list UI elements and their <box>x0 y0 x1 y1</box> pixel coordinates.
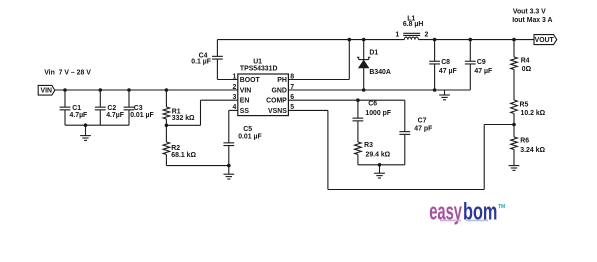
node: PH riser on top rail <box>348 38 352 42</box>
svg-text:0Ω: 0Ω <box>522 66 532 73</box>
svg-text:VIN: VIN <box>240 87 252 94</box>
svg-text:SS: SS <box>240 108 250 115</box>
wire: top rail C4 to L1 <box>217 39 404 41</box>
node: C8 bottom junction <box>433 88 437 92</box>
wire: PH pin 8 to switch node <box>288 40 349 80</box>
node: C9 top junction <box>469 38 473 42</box>
svg-text:10.2 kΩ: 10.2 kΩ <box>521 110 546 117</box>
inductor L1 6.8uH <box>395 15 428 39</box>
wire: compensation bottom rail <box>358 164 405 166</box>
svg-text:C6: C6 <box>368 101 377 108</box>
wire: VSNS pin 5 feedback loop <box>288 110 514 189</box>
svg-text:C5: C5 <box>243 126 252 133</box>
resistor R2 68.1k <box>163 125 196 165</box>
svg-text:4.7µF: 4.7µF <box>70 112 88 119</box>
svg-text:1: 1 <box>232 73 236 80</box>
capacitor C5 0.01uF (soft start) <box>223 110 261 165</box>
node: R1 junction <box>165 88 169 92</box>
capacitor C1 4.7uF <box>60 90 88 125</box>
svg-text:bom: bom <box>463 198 497 225</box>
svg-text:4: 4 <box>232 104 236 111</box>
svg-text:68.1 kΩ: 68.1 kΩ <box>171 152 196 159</box>
svg-text:6.8 µH: 6.8 µH <box>403 21 423 28</box>
svg-text:B340A: B340A <box>369 69 390 76</box>
svg-text:GND: GND <box>271 87 286 94</box>
ground (output caps) <box>439 90 450 100</box>
pin 4 label <box>232 104 236 111</box>
svg-text:VIN: VIN <box>41 88 53 95</box>
capacitor C9 47uF <box>465 40 492 90</box>
resistor R3 29.4k <box>355 142 391 165</box>
node: D1 cathode on rail <box>362 38 366 42</box>
svg-text:47 µF: 47 µF <box>439 68 457 75</box>
svg-text:Vout 3.3 V: Vout 3.3 V <box>513 9 546 16</box>
svg-text:VOUT: VOUT <box>535 37 555 44</box>
capacitor C2 4.7uF <box>95 90 124 125</box>
svg-text:2: 2 <box>425 32 429 39</box>
node: C2 junction <box>99 88 103 92</box>
svg-text:R3: R3 <box>364 142 373 149</box>
svg-text:C2: C2 <box>107 105 116 112</box>
svg-text:U1: U1 <box>253 59 262 66</box>
resistor R1 332k <box>163 90 195 125</box>
svg-text:1000 pF: 1000 pF <box>365 110 391 117</box>
pin 5 label <box>290 104 294 111</box>
Vout rating label <box>512 9 552 24</box>
svg-text:PH: PH <box>277 77 287 84</box>
wire: junction to EN pin 3 <box>166 100 237 125</box>
ground (R2/C5) <box>223 166 234 179</box>
svg-text:C1: C1 <box>72 105 81 112</box>
pin 8 label <box>290 73 294 80</box>
svg-text:47 µF: 47 µF <box>474 68 492 75</box>
svg-text:R5: R5 <box>520 102 529 109</box>
svg-text:Vin 7 V – 28 V: Vin 7 V – 28 V <box>44 69 91 76</box>
resistor R6 3.24k <box>511 125 546 166</box>
svg-text:47 pF: 47 pF <box>414 126 432 133</box>
resistor R5 10.2k <box>511 100 546 125</box>
svg-text:EN: EN <box>240 98 250 105</box>
svg-text:BOOT: BOOT <box>240 77 261 84</box>
capacitor C4 0.1uF (bootstrap) <box>191 40 238 80</box>
wire: COMP pin 6 to C6/C7 <box>288 99 404 101</box>
svg-text:C7: C7 <box>418 117 427 124</box>
svg-text:0.01 µF: 0.01 µF <box>130 112 154 119</box>
ground (R6) <box>509 166 520 171</box>
node: ground rail junction <box>84 123 88 127</box>
svg-text:Iout Max 3 A: Iout Max 3 A <box>512 17 552 24</box>
node: C3 junction <box>127 88 131 92</box>
op-amp U1 TPS54331D converter IC <box>238 59 289 116</box>
wire: VIN rail to U1 pin 2 <box>55 89 238 91</box>
svg-text:29.4 kΩ: 29.4 kΩ <box>366 151 391 158</box>
svg-text:4.7µF: 4.7µF <box>106 112 124 119</box>
wire: GND pin 7 rail <box>288 89 470 91</box>
svg-text:R4: R4 <box>521 58 530 65</box>
node: C1 junction <box>63 88 67 92</box>
diode D1 B340A schottky <box>357 40 391 90</box>
VOUT output tag <box>534 35 557 45</box>
svg-text:0.1 µF: 0.1 µF <box>191 59 211 66</box>
node: R5/R6 feedback junction <box>512 123 516 127</box>
node: C8 top junction <box>433 38 437 42</box>
capacitor C6 1000pF <box>353 100 392 142</box>
easybom logo <box>429 198 505 225</box>
svg-text:1: 1 <box>395 32 399 39</box>
node: R4 top junction <box>512 38 516 42</box>
svg-text:3: 3 <box>232 94 236 101</box>
wire: R2/C5 bottom rail <box>166 165 228 167</box>
svg-text:2: 2 <box>232 84 236 91</box>
svg-text:VSNS: VSNS <box>268 108 287 115</box>
ground (input caps) <box>80 125 91 140</box>
wire: input cap ground rail <box>65 124 129 126</box>
node: C5 bottom junction <box>227 164 231 168</box>
svg-text:3.24 kΩ: 3.24 kΩ <box>520 147 545 154</box>
svg-text:R2: R2 <box>171 145 180 152</box>
node: compensation gnd junction <box>378 163 382 167</box>
svg-text:TPS54331D: TPS54331D <box>240 66 278 73</box>
capacitor C8 47uF <box>429 40 456 90</box>
svg-text:0.01 µF: 0.01 µF <box>238 133 262 140</box>
svg-text:C8: C8 <box>441 59 450 66</box>
VIN input tag <box>38 85 55 95</box>
svg-text:TM: TM <box>498 204 505 210</box>
pin 1 label <box>232 73 236 80</box>
pin 6 label <box>290 94 294 101</box>
ground (compensation) <box>374 165 385 178</box>
svg-text:COMP: COMP <box>266 98 287 105</box>
svg-text:C9: C9 <box>477 59 486 66</box>
pin 3 label <box>232 94 236 101</box>
resistor R4 0 ohm <box>511 40 532 100</box>
node: D1 anode on gnd rail <box>362 88 366 92</box>
svg-text:easy: easy <box>429 198 462 225</box>
capacitor C7 47pF <box>399 100 432 165</box>
svg-text:332 kΩ: 332 kΩ <box>172 115 195 122</box>
wire: L1 to VOUT tag <box>419 39 535 41</box>
pin 7 label <box>290 84 294 91</box>
svg-text:D1: D1 <box>369 49 378 56</box>
node: C6 top junction <box>356 98 360 102</box>
svg-text:R6: R6 <box>520 137 529 144</box>
capacitor C3 0.01uF <box>124 90 154 125</box>
svg-text:C3: C3 <box>134 105 143 112</box>
Vin range label <box>44 69 91 76</box>
node: R1/R2/EN junction <box>165 124 169 128</box>
pin 2 label <box>232 84 236 91</box>
